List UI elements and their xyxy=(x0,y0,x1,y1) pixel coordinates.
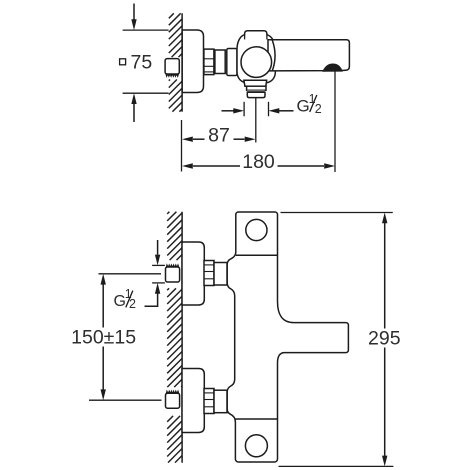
svg-text:75: 75 xyxy=(131,51,153,73)
svg-text:150±15: 150±15 xyxy=(71,327,136,349)
svg-text:180: 180 xyxy=(242,151,275,173)
svg-text:2: 2 xyxy=(129,297,136,311)
svg-text:295: 295 xyxy=(368,328,401,350)
svg-text:2: 2 xyxy=(315,102,322,116)
svg-text:87: 87 xyxy=(208,124,230,146)
